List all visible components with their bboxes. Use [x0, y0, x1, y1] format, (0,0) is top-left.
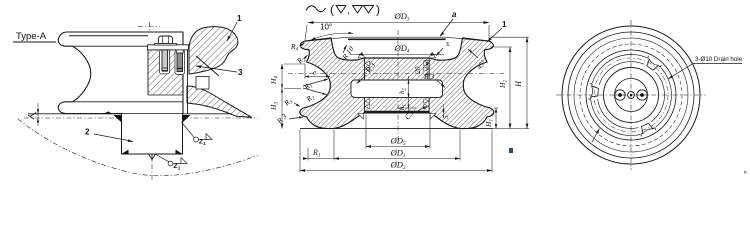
drain pitch dash-dot circle: [594, 58, 668, 132]
bracket column hatched: [148, 50, 184, 95]
H4 H3 dims left: [281, 64, 283, 129]
top wear plate thick line: [348, 38, 446, 40]
H dims right: [495, 108, 497, 129]
rim outer circle: [562, 26, 700, 164]
groove bottom circle: [586, 50, 676, 140]
svg-text:1: 1: [502, 20, 507, 29]
roller top flange underside: [73, 45, 148, 47]
weld triangle below lower plate: [358, 114, 364, 120]
weld symbol Z1 upper: [194, 137, 199, 142]
svg-text:3-Ø10 Drain hole: 3-Ø10 Drain hole: [695, 56, 743, 63]
right view horizontal centerline: [556, 94, 706, 96]
roller bottom flange top line: [73, 101, 183, 103]
svg-text:5: 5: [442, 115, 450, 119]
weld fillet top-left: [114, 115, 122, 123]
svg-text:a: a: [452, 10, 457, 19]
plate thickness dim: [37, 103, 39, 126]
deck dash-dot line: [24, 117, 258, 119]
svg-text:3: 3: [238, 68, 243, 77]
web disc arcs: [651, 72, 664, 122]
svg-text:(: (: [330, 3, 334, 17]
roller axis centerline: [149, 22, 151, 110]
hex bolt head: [159, 36, 173, 44]
svg-text:,: ,: [347, 6, 350, 17]
bracket fold line: [196, 56, 219, 76]
roller body left view: [58, 32, 183, 114]
bolt shank: [162, 50, 168, 71]
bracket notch: [196, 77, 209, 90]
axis top tick: [138, 25, 160, 27]
section vertical centerline: [397, 30, 399, 140]
drain holes: [643, 56, 661, 72]
retaining pin: [177, 53, 183, 72]
left grease hole: [615, 90, 625, 100]
bottom edge line: [300, 128, 494, 130]
upper horn of bracket: [189, 27, 238, 74]
weld fillet top-right: [183, 115, 191, 123]
hub lower plate thick seat line: [365, 111, 430, 113]
svg-text:10°: 10°: [320, 23, 332, 32]
roller section body hatched: [300, 38, 494, 129]
right view vertical centerline: [630, 20, 632, 170]
deck plate line: [28, 113, 232, 115]
center hole: [628, 92, 635, 99]
rim circle 3: [574, 38, 688, 152]
tiny corner mark: [744, 171, 747, 174]
bolt washer: [155, 44, 177, 46]
hub outer circle: [604, 68, 659, 123]
small arrow mark lower-left: [592, 129, 600, 143]
weld triangle top of walls: [358, 53, 365, 58]
weld marks on hub walls: [365, 61, 370, 66]
weld symbol Z1 lower: [168, 161, 173, 166]
hub bore slot: [351, 80, 443, 97]
svg-text:Type-A: Type-A: [16, 31, 47, 42]
pitch dashed circle: [580, 44, 682, 146]
section horizontal centerline: [288, 72, 504, 74]
weld fillet bottom-right: [176, 150, 183, 155]
svg-text:): ): [376, 3, 380, 17]
pin slot: [175, 50, 185, 75]
svg-text:2: 2: [85, 128, 90, 137]
svg-text:1: 1: [237, 14, 242, 23]
surface finish note: [306, 6, 326, 12]
svg-text:R 3: R 3: [423, 72, 434, 81]
rim circle 2: [568, 32, 694, 158]
svg-text:s: s: [446, 39, 449, 48]
pedestal: [122, 114, 183, 154]
hub inner circle: [615, 79, 648, 112]
lower horn of bracket: [187, 86, 252, 117]
pedestal centerline: [151, 111, 153, 181]
seat weld mark: [103, 111, 112, 114]
hub wall left: [364, 58, 366, 113]
roller top back edge: [69, 35, 148, 37]
cap plate: [148, 45, 189, 50]
top surface thin line: [304, 37, 490, 41]
hull break line: [18, 119, 258, 176]
weld fillet bottom-left: [122, 150, 129, 155]
hub wall right: [428, 58, 430, 113]
weld V mark pedestal bottom: [149, 154, 156, 160]
svg-text:20: 20: [414, 66, 422, 74]
blue mark: [509, 148, 513, 153]
bolt slot: [160, 50, 170, 74]
right grease hole: [637, 90, 647, 100]
